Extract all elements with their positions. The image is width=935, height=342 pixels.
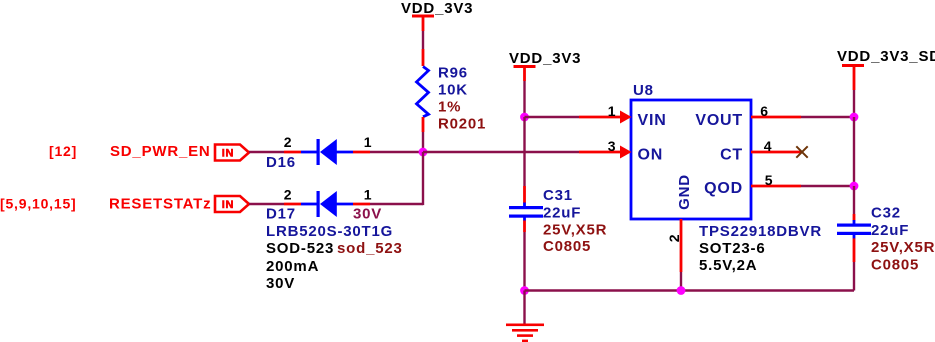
pin 1 VIN lead: [579, 103, 632, 124]
svg-text:C31: C31: [543, 187, 573, 204]
svg-text:IN: IN: [222, 148, 235, 160]
port IN (SD_PWR_EN): [215, 145, 249, 161]
svg-text:D16: D16: [266, 154, 296, 171]
ground symbol: [506, 291, 544, 342]
svg-text:30V: 30V: [353, 206, 382, 223]
wire C31 to ground node: [523, 232, 525, 291]
wire port to D17: [249, 203, 284, 205]
node B junction (VIN/C31): [520, 113, 529, 122]
svg-text:1%: 1%: [438, 99, 461, 116]
wire VOUT to node E: [801, 116, 854, 118]
wire C32 to rail corner: [853, 262, 855, 291]
wire VDD_3V3 to R96: [422, 31, 424, 49]
svg-text:TPS22918DBVR: TPS22918DBVR: [699, 223, 822, 240]
svg-text:5.5V,2A: 5.5V,2A: [699, 257, 757, 274]
svg-text:2: 2: [284, 134, 293, 150]
wire R96 to node: [422, 132, 424, 152]
svg-text:LRB520S-30T1G: LRB520S-30T1G: [266, 223, 393, 240]
no-connect X on CT: [796, 146, 807, 157]
node F junction (QOD/C32): [850, 182, 859, 191]
svg-text:C0805: C0805: [543, 238, 591, 255]
svg-text:R0201: R0201: [438, 116, 486, 133]
wire node B down to C31: [523, 117, 525, 186]
wire node E to node F: [853, 117, 855, 186]
svg-text:VOUT: VOUT: [695, 112, 743, 129]
svg-text:sod_523: sod_523: [337, 240, 403, 257]
svg-text:U8: U8: [633, 82, 654, 99]
svg-text:QOD: QOD: [704, 180, 743, 197]
svg-text:VDD_3V3: VDD_3V3: [509, 50, 581, 67]
wire corner up to node A: [422, 152, 424, 205]
wire node B to VIN pin: [525, 116, 580, 118]
svg-text:GND: GND: [676, 174, 693, 210]
wire D17 to corner: [370, 203, 423, 205]
svg-text:SOT23-6: SOT23-6: [699, 240, 765, 257]
wire VDD_SD down to node E: [853, 90, 855, 117]
wire VDD to VIN node: [523, 81, 525, 117]
node A junction: [419, 148, 428, 157]
svg-text:D17: D17: [266, 206, 296, 223]
diode D16: [266, 134, 372, 171]
node E junction (VOUT): [850, 113, 859, 122]
pin 6 VOUT lead: [751, 103, 801, 119]
svg-text:10K: 10K: [438, 82, 468, 99]
svg-text:C32: C32: [871, 204, 901, 221]
svg-text:2: 2: [666, 234, 682, 243]
capacitor C31: [509, 186, 607, 255]
svg-text:22uF: 22uF: [871, 222, 909, 239]
diode D17: [266, 187, 403, 293]
svg-text:25V,X5R: 25V,X5R: [543, 222, 607, 239]
svg-text:[5,9,10,15]: [5,9,10,15]: [0, 196, 77, 212]
wire bottom rail: [525, 289, 855, 291]
svg-text:200mA: 200mA: [266, 258, 319, 275]
pin 2 GND lead: [666, 219, 682, 272]
svg-text:1: 1: [364, 187, 373, 203]
svg-text:VDD_3V3_SD: VDD_3V3_SD: [837, 48, 935, 65]
svg-text:RESETSTATz: RESETSTATz: [109, 196, 211, 213]
svg-text:R96: R96: [438, 65, 468, 82]
svg-text:1: 1: [364, 134, 373, 150]
svg-text:VIN: VIN: [638, 112, 667, 129]
node C junction (ground rail left): [520, 286, 529, 295]
node D junction (GND/rail): [677, 286, 686, 295]
wire node F to C32: [853, 186, 855, 214]
svg-text:CT: CT: [720, 147, 743, 164]
pin 3 ON lead: [579, 138, 632, 159]
svg-text:4: 4: [764, 138, 773, 154]
power symbol VDD_3V3 (feeds VIN / C31): [509, 50, 581, 81]
svg-text:SOD-523: SOD-523: [266, 240, 334, 257]
svg-text:30V: 30V: [266, 275, 295, 292]
svg-text:IN: IN: [222, 199, 235, 211]
power symbol VDD_3V3_SD: [837, 48, 935, 90]
svg-text:[12]: [12]: [49, 143, 77, 159]
power symbol VDD_3V3 (top, feeds R96): [401, 0, 473, 31]
svg-text:3: 3: [608, 138, 617, 154]
pin 4 CT lead: [751, 138, 803, 154]
port IN (RESETSTATz): [215, 196, 249, 212]
svg-text:SD_PWR_EN: SD_PWR_EN: [110, 143, 211, 160]
wire QOD to node F: [801, 185, 854, 187]
svg-text:2: 2: [284, 187, 293, 203]
wire GND pin to rail: [680, 272, 682, 291]
op IC U8 TPS22918: [631, 82, 822, 274]
svg-text:6: 6: [760, 103, 769, 119]
svg-text:C0805: C0805: [871, 257, 919, 274]
wire D16 to node A: [370, 151, 423, 153]
wire node A to ON pin: [423, 151, 579, 153]
pin 5 QOD lead: [751, 172, 801, 188]
svg-text:ON: ON: [638, 147, 664, 164]
svg-text:1: 1: [608, 103, 617, 119]
svg-text:25V,X5R: 25V,X5R: [871, 239, 935, 256]
resistor R96: [417, 49, 487, 133]
svg-text:22uF: 22uF: [543, 205, 581, 222]
capacitor C32: [837, 204, 935, 273]
wire port to D16: [249, 151, 284, 153]
svg-text:VDD_3V3: VDD_3V3: [401, 0, 473, 17]
svg-text:5: 5: [765, 172, 774, 188]
